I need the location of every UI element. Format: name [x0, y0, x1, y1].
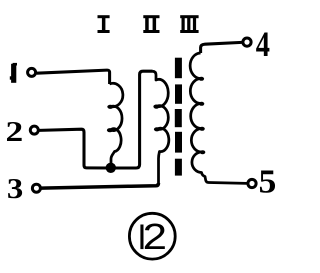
winding label III [180, 15, 198, 33]
figure number circle [129, 213, 175, 259]
terminal label 1 [10, 63, 17, 83]
winding label I [98, 15, 110, 33]
terminal label 3 [7, 172, 23, 205]
terminal 4 circle [243, 38, 251, 46]
coil III cusp blobs [199, 77, 206, 154]
figure number 12 [140, 217, 167, 257]
svg-text:4: 4 [256, 24, 270, 64]
svg-text:3: 3 [7, 172, 23, 205]
winding label II [143, 15, 159, 33]
winding II (coil, 3 loops) [153, 71, 169, 184]
winding III (coil, 5 loops) [190, 53, 247, 183]
coil I cusp blobs [107, 105, 113, 133]
junction dot (tap node) [106, 163, 116, 173]
svg-text:2: 2 [143, 217, 167, 257]
svg-text:5: 5 [259, 162, 277, 200]
terminal 5 circle [248, 179, 256, 187]
transformer core (dashed bar) [175, 58, 182, 176]
terminal 2 circle [30, 126, 38, 134]
winding I (coil, 3 loops) [110, 83, 123, 164]
terminal 3 circle [32, 184, 40, 192]
wire junction to winding II top [113, 71, 153, 168]
terminal 1 circle [28, 68, 36, 76]
terminal label 2 [5, 115, 23, 147]
svg-text:2: 2 [5, 115, 23, 147]
wire terminal 3 to winding II bottom [41, 183, 158, 188]
coil II cusp blobs [153, 105, 160, 132]
terminal label 4 [256, 24, 270, 64]
wire terminal 4 to winding III top [201, 42, 242, 53]
wire terminal 1 to winding I top [37, 70, 110, 84]
terminal label 5 [259, 162, 277, 200]
wire terminal 2 to junction [39, 129, 108, 168]
